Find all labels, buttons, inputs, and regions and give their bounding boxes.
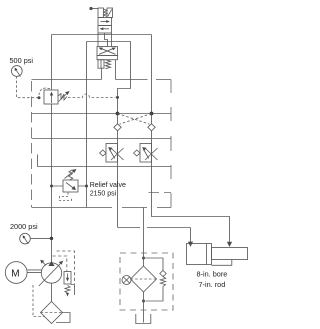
node dot filter bottom bbox=[142, 300, 145, 303]
relief valve spring bbox=[69, 170, 73, 180]
valve stem middle step bbox=[105, 33, 108, 47]
gauge 500psi bbox=[11, 66, 22, 77]
svg-text:500 psi: 500 psi bbox=[10, 56, 34, 65]
bypass check diamond bbox=[160, 271, 166, 277]
solenoid box right with diagonal bbox=[107, 8, 113, 18]
wire filter drop x=143.5 bbox=[143, 208, 145, 254]
node dot pump line bbox=[50, 237, 53, 240]
clog indicator bbox=[122, 276, 131, 285]
relief drain dashed bbox=[60, 193, 72, 201]
enclosure dashed left bbox=[31, 81, 33, 208]
pump outlet arrow bbox=[48, 261, 54, 266]
wire solenoid lead bbox=[93, 8, 99, 10]
wire filter center bbox=[143, 253, 145, 266]
compensator arrow bbox=[67, 274, 69, 279]
cylinder body bbox=[187, 244, 212, 265]
pump to strainer bbox=[51, 283, 53, 301]
node dot xcross right bbox=[150, 112, 154, 116]
main valve spring bottom bbox=[106, 60, 111, 69]
cb1 arrow bbox=[110, 151, 115, 159]
bypass spring bbox=[160, 277, 165, 287]
relief valve body bbox=[63, 180, 78, 192]
arrow cap port bbox=[188, 242, 193, 247]
node dot relief left bbox=[50, 185, 53, 188]
pump circle bbox=[41, 263, 61, 283]
wire vertical x=51.5 top bbox=[51, 35, 53, 91]
pilot line dashed gauge500 bbox=[17, 76, 38, 98]
cb1 diamond bbox=[100, 150, 106, 156]
compensator outlet L bbox=[71, 285, 75, 296]
filter diamond bbox=[131, 266, 157, 292]
wire ladder y=113.7 bbox=[32, 113, 172, 115]
node dot solenoid wire bbox=[89, 7, 92, 10]
diamond pilot left bbox=[114, 124, 121, 131]
compensator box bbox=[64, 272, 71, 285]
cb2 arrow bbox=[144, 151, 149, 159]
node dot reducing pilot bbox=[38, 96, 41, 99]
arrow in box1 bbox=[101, 21, 108, 23]
wire branch to cylinder cap x=117 y=227.4 bbox=[118, 228, 191, 242]
valve port left x=101 bbox=[101, 68, 103, 79]
wire pump pressure x=51.5 bbox=[51, 104, 53, 262]
pump rotation arrow bbox=[42, 261, 46, 265]
counterbalance valve 1 body bbox=[106, 144, 118, 163]
cb1 orifice cross bbox=[111, 148, 124, 160]
compensator pilot dashed bbox=[53, 256, 67, 272]
filter enclosure dashed bbox=[120, 253, 173, 310]
tank symbol bbox=[136, 314, 151, 324]
svg-text:2000 psi: 2000 psi bbox=[10, 222, 38, 231]
main valve X box bbox=[97, 47, 118, 56]
pilot valve box1 bbox=[98, 18, 112, 26]
bypass branch bbox=[144, 258, 164, 271]
strainer diamond bbox=[41, 302, 63, 324]
wire vertical x=130.5 bbox=[118, 42, 131, 228]
wire ladder y=138 bbox=[32, 138, 172, 140]
wire ladder y=166.5 bbox=[38, 155, 172, 167]
pilot cross dashed 1 bbox=[118, 114, 150, 125]
gauge 2000psi bbox=[20, 233, 31, 244]
reducing valve spring bbox=[58, 94, 67, 101]
shaft bbox=[27, 270, 41, 273]
svg-text:Relief valve: Relief valve bbox=[90, 182, 126, 189]
node dot filter top bbox=[142, 257, 145, 260]
pilot line dashed to node bbox=[68, 94, 116, 98]
reducing valve arrow bbox=[51, 94, 53, 103]
enclosure dashed bottom-right bbox=[149, 192, 172, 194]
main valve lower box bbox=[97, 56, 118, 60]
svg-text:M: M bbox=[11, 268, 19, 279]
cylinder rod bbox=[212, 248, 248, 260]
bypass return bbox=[146, 286, 164, 301]
wire relief branch y=186 bbox=[52, 185, 87, 187]
valve stem left bbox=[97, 33, 99, 47]
pilot cross dashed 2 bbox=[120, 114, 152, 125]
node dot pilot right bbox=[116, 96, 119, 99]
wire line y=79.5 left bbox=[32, 79, 102, 81]
arrow rod port bbox=[227, 242, 232, 247]
wire T line y=41 bbox=[87, 41, 131, 43]
wire gauge 2000 link bbox=[30, 237, 51, 239]
wire vertical x=86.5 bbox=[86, 42, 88, 208]
svg-text:8-in. bore: 8-in. bore bbox=[197, 270, 228, 279]
compensator drain arrow bbox=[66, 293, 69, 297]
relief valve arrow bbox=[66, 183, 74, 189]
valve stem right bbox=[111, 33, 113, 47]
wire vertical x=151.5 bbox=[152, 35, 230, 242]
svg-text:2150 psi: 2150 psi bbox=[90, 191, 117, 198]
piston line bbox=[206, 244, 208, 265]
compensator spring bbox=[65, 286, 70, 294]
reducing valve body bbox=[44, 90, 58, 104]
wire P line y=34 bbox=[52, 34, 152, 36]
reducing valve adjust arrow bbox=[59, 93, 69, 102]
wire filter out bbox=[143, 292, 145, 323]
cb2 diamond bbox=[134, 150, 140, 156]
pilot dashed arc to valve top bbox=[39, 88, 50, 95]
cb2 orifice cross bbox=[145, 148, 158, 160]
pump variable arrow bbox=[39, 263, 61, 286]
svg-text:7-in. rod: 7-in. rod bbox=[199, 280, 226, 289]
wire vertical x=171 bbox=[170, 80, 172, 208]
pilot valve box2 bbox=[98, 26, 112, 34]
valve port right x=115.5 bbox=[115, 60, 117, 80]
spring top pilot bbox=[104, 9, 108, 17]
arrow in box2 bbox=[102, 28, 109, 30]
strainer right L bbox=[56, 313, 70, 323]
compensator dashed border bbox=[57, 251, 75, 284]
relief adjust arrow bbox=[65, 171, 75, 179]
node dot xcross left bbox=[116, 112, 120, 116]
wire line y=79.5 right bbox=[116, 79, 172, 81]
strainer dashed element bbox=[41, 312, 63, 314]
diamond pilot right bbox=[148, 124, 155, 131]
main valve left operator box bbox=[98, 60, 104, 68]
solenoid box left bbox=[98, 8, 104, 18]
cylinder rod under-block bbox=[212, 260, 232, 266]
wire return y=207.5 bbox=[32, 207, 171, 209]
node dot relief right bbox=[85, 185, 88, 188]
case drain dashed bbox=[33, 285, 44, 317]
counterbalance valve 2 body bbox=[140, 144, 152, 163]
motor M bbox=[5, 262, 27, 284]
filter dashed element bbox=[131, 278, 157, 280]
